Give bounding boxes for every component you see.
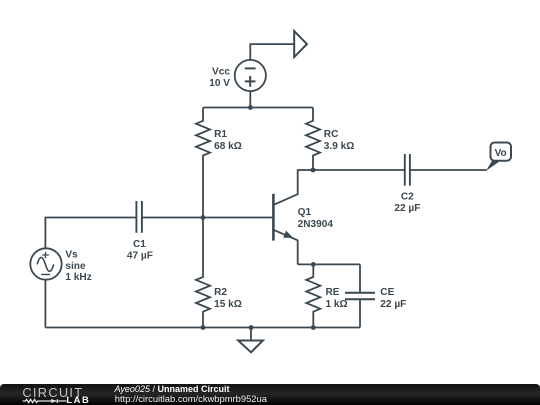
- svg-text:22 µF: 22 µF: [380, 299, 406, 310]
- svg-text:3.9 kΩ: 3.9 kΩ: [324, 141, 355, 152]
- svg-text:C1: C1: [133, 239, 146, 250]
- svg-text:RE: RE: [326, 287, 340, 298]
- svg-text:Vs: Vs: [65, 250, 78, 261]
- svg-text:R1: R1: [214, 129, 227, 140]
- svg-text:22 µF: 22 µF: [394, 203, 420, 214]
- svg-text:15 kΩ: 15 kΩ: [214, 299, 242, 310]
- svg-text:Vo: Vo: [495, 148, 507, 159]
- svg-text:2N3904: 2N3904: [298, 219, 334, 230]
- svg-text:CE: CE: [380, 287, 394, 298]
- svg-text:LAB: LAB: [66, 395, 90, 405]
- svg-text:RC: RC: [324, 129, 339, 140]
- svg-text:R2: R2: [214, 287, 227, 298]
- svg-text:C2: C2: [401, 191, 414, 202]
- svg-text:sine: sine: [65, 261, 86, 272]
- svg-text:1 kΩ: 1 kΩ: [326, 299, 348, 310]
- svg-text:Vcc: Vcc: [212, 67, 230, 78]
- svg-text:Q1: Q1: [298, 207, 312, 218]
- svg-text:68 kΩ: 68 kΩ: [214, 141, 242, 152]
- svg-text:47 µF: 47 µF: [127, 251, 153, 262]
- svg-text:1 kHz: 1 kHz: [65, 272, 91, 283]
- svg-text:10 V: 10 V: [209, 78, 230, 89]
